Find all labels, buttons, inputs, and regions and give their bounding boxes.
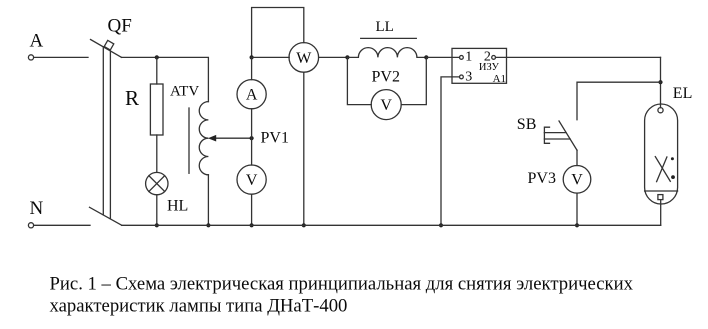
svg-text:ИЗУ: ИЗУ	[479, 62, 500, 73]
lamp EL base square	[658, 195, 663, 200]
lamp EL base line	[645, 190, 678, 192]
pin 1 circle	[460, 56, 464, 60]
terminal N	[28, 223, 33, 228]
breaker QF pole1 blade	[91, 40, 122, 58]
svg-text:R: R	[125, 86, 139, 110]
voltmeter PV2	[371, 90, 401, 120]
wire N to QF	[34, 224, 90, 226]
lamp HL	[146, 172, 168, 194]
ATV wiper arrow	[208, 135, 252, 142]
wire R to HL	[156, 135, 158, 172]
junction W bottom	[302, 223, 306, 227]
wire V meter to rail	[251, 194, 253, 225]
junction SB branch	[658, 80, 662, 84]
junction top of A branch	[250, 55, 254, 59]
wire pin2 to right	[496, 56, 661, 58]
pin 2 circle	[492, 56, 496, 60]
svg-text:характеристик лампы типа ДНаТ-: характеристик лампы типа ДНаТ-400	[50, 295, 348, 316]
svg-text:ATV: ATV	[170, 84, 199, 100]
lamp EL electrode circle	[658, 108, 663, 113]
svg-text:HL: HL	[167, 198, 188, 215]
wattmeter W	[289, 43, 319, 73]
wire HL to rail	[156, 195, 158, 226]
svg-text:W: W	[296, 50, 312, 67]
autotransformer ATV coil	[199, 102, 208, 175]
junction PV3 bottom	[575, 223, 579, 227]
svg-text:A: A	[30, 30, 44, 51]
svg-text:QF: QF	[108, 15, 132, 36]
svg-text:3: 3	[465, 69, 472, 84]
ignitor box IZU	[452, 48, 507, 83]
bottom rail wire	[122, 224, 661, 226]
LL overline	[361, 37, 417, 39]
wire A to QF	[34, 56, 88, 58]
svg-text:N: N	[30, 198, 44, 219]
svg-text:Рис. 1 – Схема электрическая п: Рис. 1 – Схема электрическая принципиаль…	[50, 274, 634, 295]
terminal A	[28, 55, 33, 60]
lamp EL dot upper	[671, 157, 674, 160]
top rail wire	[122, 57, 209, 101]
svg-text:PV2: PV2	[372, 68, 400, 85]
junction PV1 bottom	[250, 223, 254, 227]
inductor LL	[347, 48, 426, 58]
lamp EL arc symbol	[655, 157, 670, 182]
wire ATV coil to rail	[207, 175, 209, 226]
wire W voltage coil to rail	[303, 72, 305, 225]
svg-text:1: 1	[465, 49, 472, 64]
svg-text:PV3: PV3	[528, 170, 556, 187]
svg-text:PV1: PV1	[261, 129, 289, 146]
wire A meter to PV1 tap to V meter	[251, 109, 253, 165]
wire pin3 to rail	[441, 77, 460, 225]
ammeter A	[237, 80, 266, 109]
svg-text:V: V	[246, 172, 258, 189]
junction R branch top	[155, 55, 159, 59]
autotransformer ATV core	[188, 108, 190, 173]
junction HL bottom	[155, 223, 159, 227]
wire right drop to lamp	[660, 57, 662, 107]
pin 3 circle	[460, 75, 464, 79]
wire junction to A meter	[251, 57, 253, 79]
wire SB to PV3	[576, 150, 578, 165]
svg-text:V: V	[380, 97, 392, 114]
pushbutton SB	[544, 121, 577, 150]
junction pin3 bottom	[439, 223, 443, 227]
wire PV2 left	[347, 57, 371, 104]
wire LL to ignitor pin1	[426, 56, 459, 58]
wire W to LL	[319, 56, 348, 58]
breaker QF symbol square	[104, 40, 114, 50]
svg-text:EL: EL	[673, 85, 693, 102]
breaker QF pole2 blade	[90, 207, 122, 225]
junction ATV bottom	[206, 223, 210, 227]
wire PV2 right	[401, 57, 426, 104]
lamp EL envelope	[645, 104, 678, 204]
QF linkage line right	[109, 51, 111, 219]
wire loop top	[252, 8, 304, 58]
svg-text:LL: LL	[376, 19, 394, 35]
voltmeter PV1	[237, 165, 266, 194]
junction LL right	[424, 55, 428, 59]
svg-text:А1: А1	[493, 73, 506, 85]
svg-text:V: V	[571, 172, 583, 189]
wire lamp to rail	[660, 200, 662, 226]
junction PV1 tap	[250, 136, 254, 140]
svg-text:A: A	[246, 87, 258, 104]
wire rail to R	[156, 57, 158, 84]
svg-text:SB: SB	[517, 116, 537, 133]
lamp EL dot lower	[671, 175, 675, 179]
wire junction to W	[252, 56, 290, 58]
resistor R	[150, 84, 163, 135]
wire PV3 to rail	[576, 193, 578, 225]
junction LL left	[345, 55, 349, 59]
voltmeter PV3	[563, 166, 591, 194]
QF linkage line left	[102, 47, 104, 215]
wire to SB	[577, 82, 661, 120]
